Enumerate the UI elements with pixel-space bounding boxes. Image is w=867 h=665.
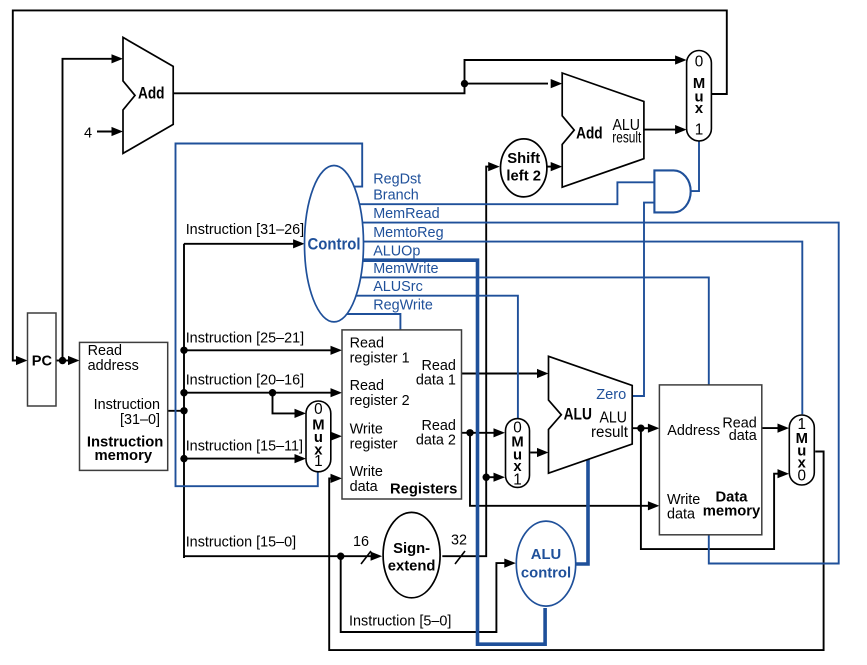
svg-text:ALU: ALU [531,547,561,563]
label RegDst [373,172,421,188]
svg-text:MemtoReg: MemtoReg [373,225,443,241]
svg-text:ALUSrc: ALUSrc [373,279,423,295]
svg-text:4: 4 [84,126,92,142]
wire: Shift left 2 output to branch Add [548,162,563,171]
svg-text:extend: extend [388,559,436,575]
wire: ALUSrc control signal to ALUSrc mux select [334,296,518,419]
svg-text:Add: Add [138,84,165,103]
wire: ALUOp control signal to ALU control [334,260,545,644]
svg-text:0: 0 [798,467,807,484]
svg-text:0: 0 [695,53,704,70]
svg-text:MemWrite: MemWrite [373,261,438,277]
svg-text:Address: Address [667,423,720,439]
wire: RegDst control signal [176,144,363,487]
svg-text:data: data [729,428,757,444]
svg-text:Read: Read [350,378,384,394]
svg-text:Write: Write [350,422,383,438]
wire: Read data 2 to ALUSrc mux input 0 [462,428,506,437]
wire: ALU result to Data memory Address [632,424,659,433]
wire: Read data 2 branch down to Data memory Write data [470,433,659,511]
svg-text:address: address [88,358,139,374]
wire: MemWrite control signal to Data memory [334,277,709,385]
wire: RegDst mux output to Write register [331,432,343,441]
wire: Instruction memory output to instruction bus [168,410,184,412]
shift left 2 unit [501,139,547,197]
wire: PC output to Instruction memory Read address [56,356,80,365]
svg-text:data: data [350,479,378,495]
wire: Instruction [5-0] to ALU control [341,556,516,632]
svg-text:Instruction: Instruction [94,397,160,413]
label Instruction [15-0] [186,535,296,551]
wire: Branch control signal to AND gate [334,182,654,204]
adder Add (branch target) with ALU result label [562,73,644,187]
wire: Instruction [25-21] to Read register 1 [184,346,342,355]
svg-text:0: 0 [314,401,323,418]
svg-text:data 1: data 1 [416,372,456,388]
wire: ALUSrc mux output to ALU [530,448,548,457]
register PC [28,313,57,406]
wire: constant 4 into Add [97,127,123,136]
svg-text:memory: memory [95,448,153,464]
wire: Zero output from ALU to AND gate [632,203,654,396]
wire: ALU result around to MemtoReg mux input 0 [641,428,789,549]
junction dot instr[20-16] [180,389,187,396]
label Instruction [31-26] [186,222,304,238]
wire: Data memory Read data to MemtoReg mux input 1 [762,424,789,433]
label Instruction [25-21] [186,330,304,346]
svg-text:x: x [695,101,704,117]
wire: Sign-extend output up to Shift left 2 [442,162,499,556]
svg-text:Branch: Branch [373,188,419,204]
junction dot on PC+4 wire [461,80,468,87]
svg-text:Read: Read [88,343,122,359]
wire: Read data 1 to ALU [462,369,549,378]
svg-text:Add: Add [576,124,603,143]
svg-text:32: 32 [451,533,467,549]
svg-text:1: 1 [513,471,522,488]
wire: Instruction [20-16] branch down to RegDst mux input 0 [273,393,307,418]
wire: AND gate output to PCSrc mux select [691,142,699,192]
label MemRead [373,206,439,222]
ALU control oval [516,521,575,606]
svg-text:1: 1 [695,121,704,138]
svg-text:Instruction [31–26]: Instruction [31–26] [186,222,304,238]
svg-text:data 2: data 2 [416,432,456,448]
wire: Instruction [31-26] to Control [184,239,305,248]
label MemtoReg [373,225,443,241]
junction dot instruction[31-0] [180,407,187,414]
wire: Instruction [20-16] to Read register 2 [184,388,342,397]
registers box [342,330,462,499]
junction dot instr[25-21] [180,347,187,354]
mux ALUSrc [506,419,530,489]
wire: PCSrc mux output to PC input (around top and left edge) [13,10,727,365]
svg-text:Registers: Registers [390,481,457,497]
instruction memory box [80,342,168,470]
svg-text:Instruction [5–0]: Instruction [5–0] [349,614,451,630]
svg-text:result: result [612,130,642,147]
label Branch [373,188,419,204]
label RegWrite [373,297,433,313]
svg-text:Instruction [15–0]: Instruction [15–0] [186,535,296,551]
svg-text:Control: Control [308,235,361,253]
svg-text:[31–0]: [31–0] [120,412,160,428]
svg-text:left 2: left 2 [506,169,541,185]
data memory box [659,385,761,535]
ALU main [549,356,633,473]
svg-text:result: result [591,424,629,441]
label 4 [84,126,92,142]
label Instruction [5-0] [349,614,451,630]
svg-text:Zero: Zero [596,386,626,403]
junction dot on sign-extend output [483,474,490,481]
svg-text:16: 16 [353,534,369,550]
mux MemtoReg (right) [789,415,814,485]
wire: MemtoReg control signal to MemtoReg mux select [334,242,802,415]
svg-text:Instruction [15–11]: Instruction [15–11] [186,438,303,454]
label ALUSrc [373,279,423,295]
svg-text:RegWrite: RegWrite [373,297,433,313]
wire: MemtoReg mux output around bottom to Registers Write data [329,452,823,651]
svg-text:control: control [521,565,571,581]
wire: Instruction [15-0] to Sign-extend [184,552,382,561]
svg-text:register 1: register 1 [350,351,410,367]
svg-text:PC: PC [32,353,53,369]
svg-text:Read: Read [350,336,384,352]
label Instruction [20-16] [186,372,304,388]
svg-text:Shift: Shift [507,151,540,167]
control unit oval [305,166,364,322]
svg-text:Sign-: Sign- [393,541,430,557]
wire: ALU control output to ALU [575,459,588,564]
svg-text:1: 1 [314,453,323,470]
adder Add (PC+4) [123,37,173,153]
label ALUOp [373,244,420,260]
svg-text:register: register [350,437,398,453]
wire: sign-extend branch to ALUSrc mux input 1 [486,473,505,482]
wire: instruction bus vertical [183,244,185,558]
wire: RegWrite control signal to Registers [334,314,400,330]
svg-text:Write: Write [350,464,383,480]
svg-text:Instruction [20–16]: Instruction [20–16] [186,372,304,388]
AND gate (branch) [654,170,690,212]
label 16 with width slash [353,534,371,564]
wire: Instruction [15-11] to RegDst mux input 1 [184,454,306,463]
wire: branch Add ALU result to PCSrc mux input 1 [644,125,687,134]
mux RegDst (write register select) [306,401,331,472]
sign extend unit [383,512,440,597]
svg-text:memory: memory [703,504,761,520]
junction dot instr[15-11] [180,455,187,462]
svg-text:ALUOp: ALUOp [373,244,420,260]
wire: PC value up to Add input [63,54,124,360]
junction dot at PC output [59,357,66,364]
wire: MemRead control signal to Data memory [334,223,839,564]
label 32 with width slash [451,533,467,565]
junction dot on Read data 2 [466,429,473,436]
svg-text:Instruction [25–21]: Instruction [25–21] [186,330,304,346]
label Instruction [15-11] [186,438,303,454]
label MemWrite [373,261,438,277]
wire: Add output (PC+4) to branch Add and up to PCSrc mux input 0 [173,55,686,93]
svg-text:register 2: register 2 [350,393,410,409]
mux PCSrc (top right) [687,51,712,142]
junction dot on instr[20-16] [269,389,276,396]
svg-text:data: data [667,507,695,523]
svg-text:MemRead: MemRead [373,206,439,222]
junction dot on instr[15-0] [337,553,344,560]
svg-text:ALU: ALU [564,405,592,424]
junction dot on ALU result [637,425,644,432]
svg-text:RegDst: RegDst [373,172,421,188]
